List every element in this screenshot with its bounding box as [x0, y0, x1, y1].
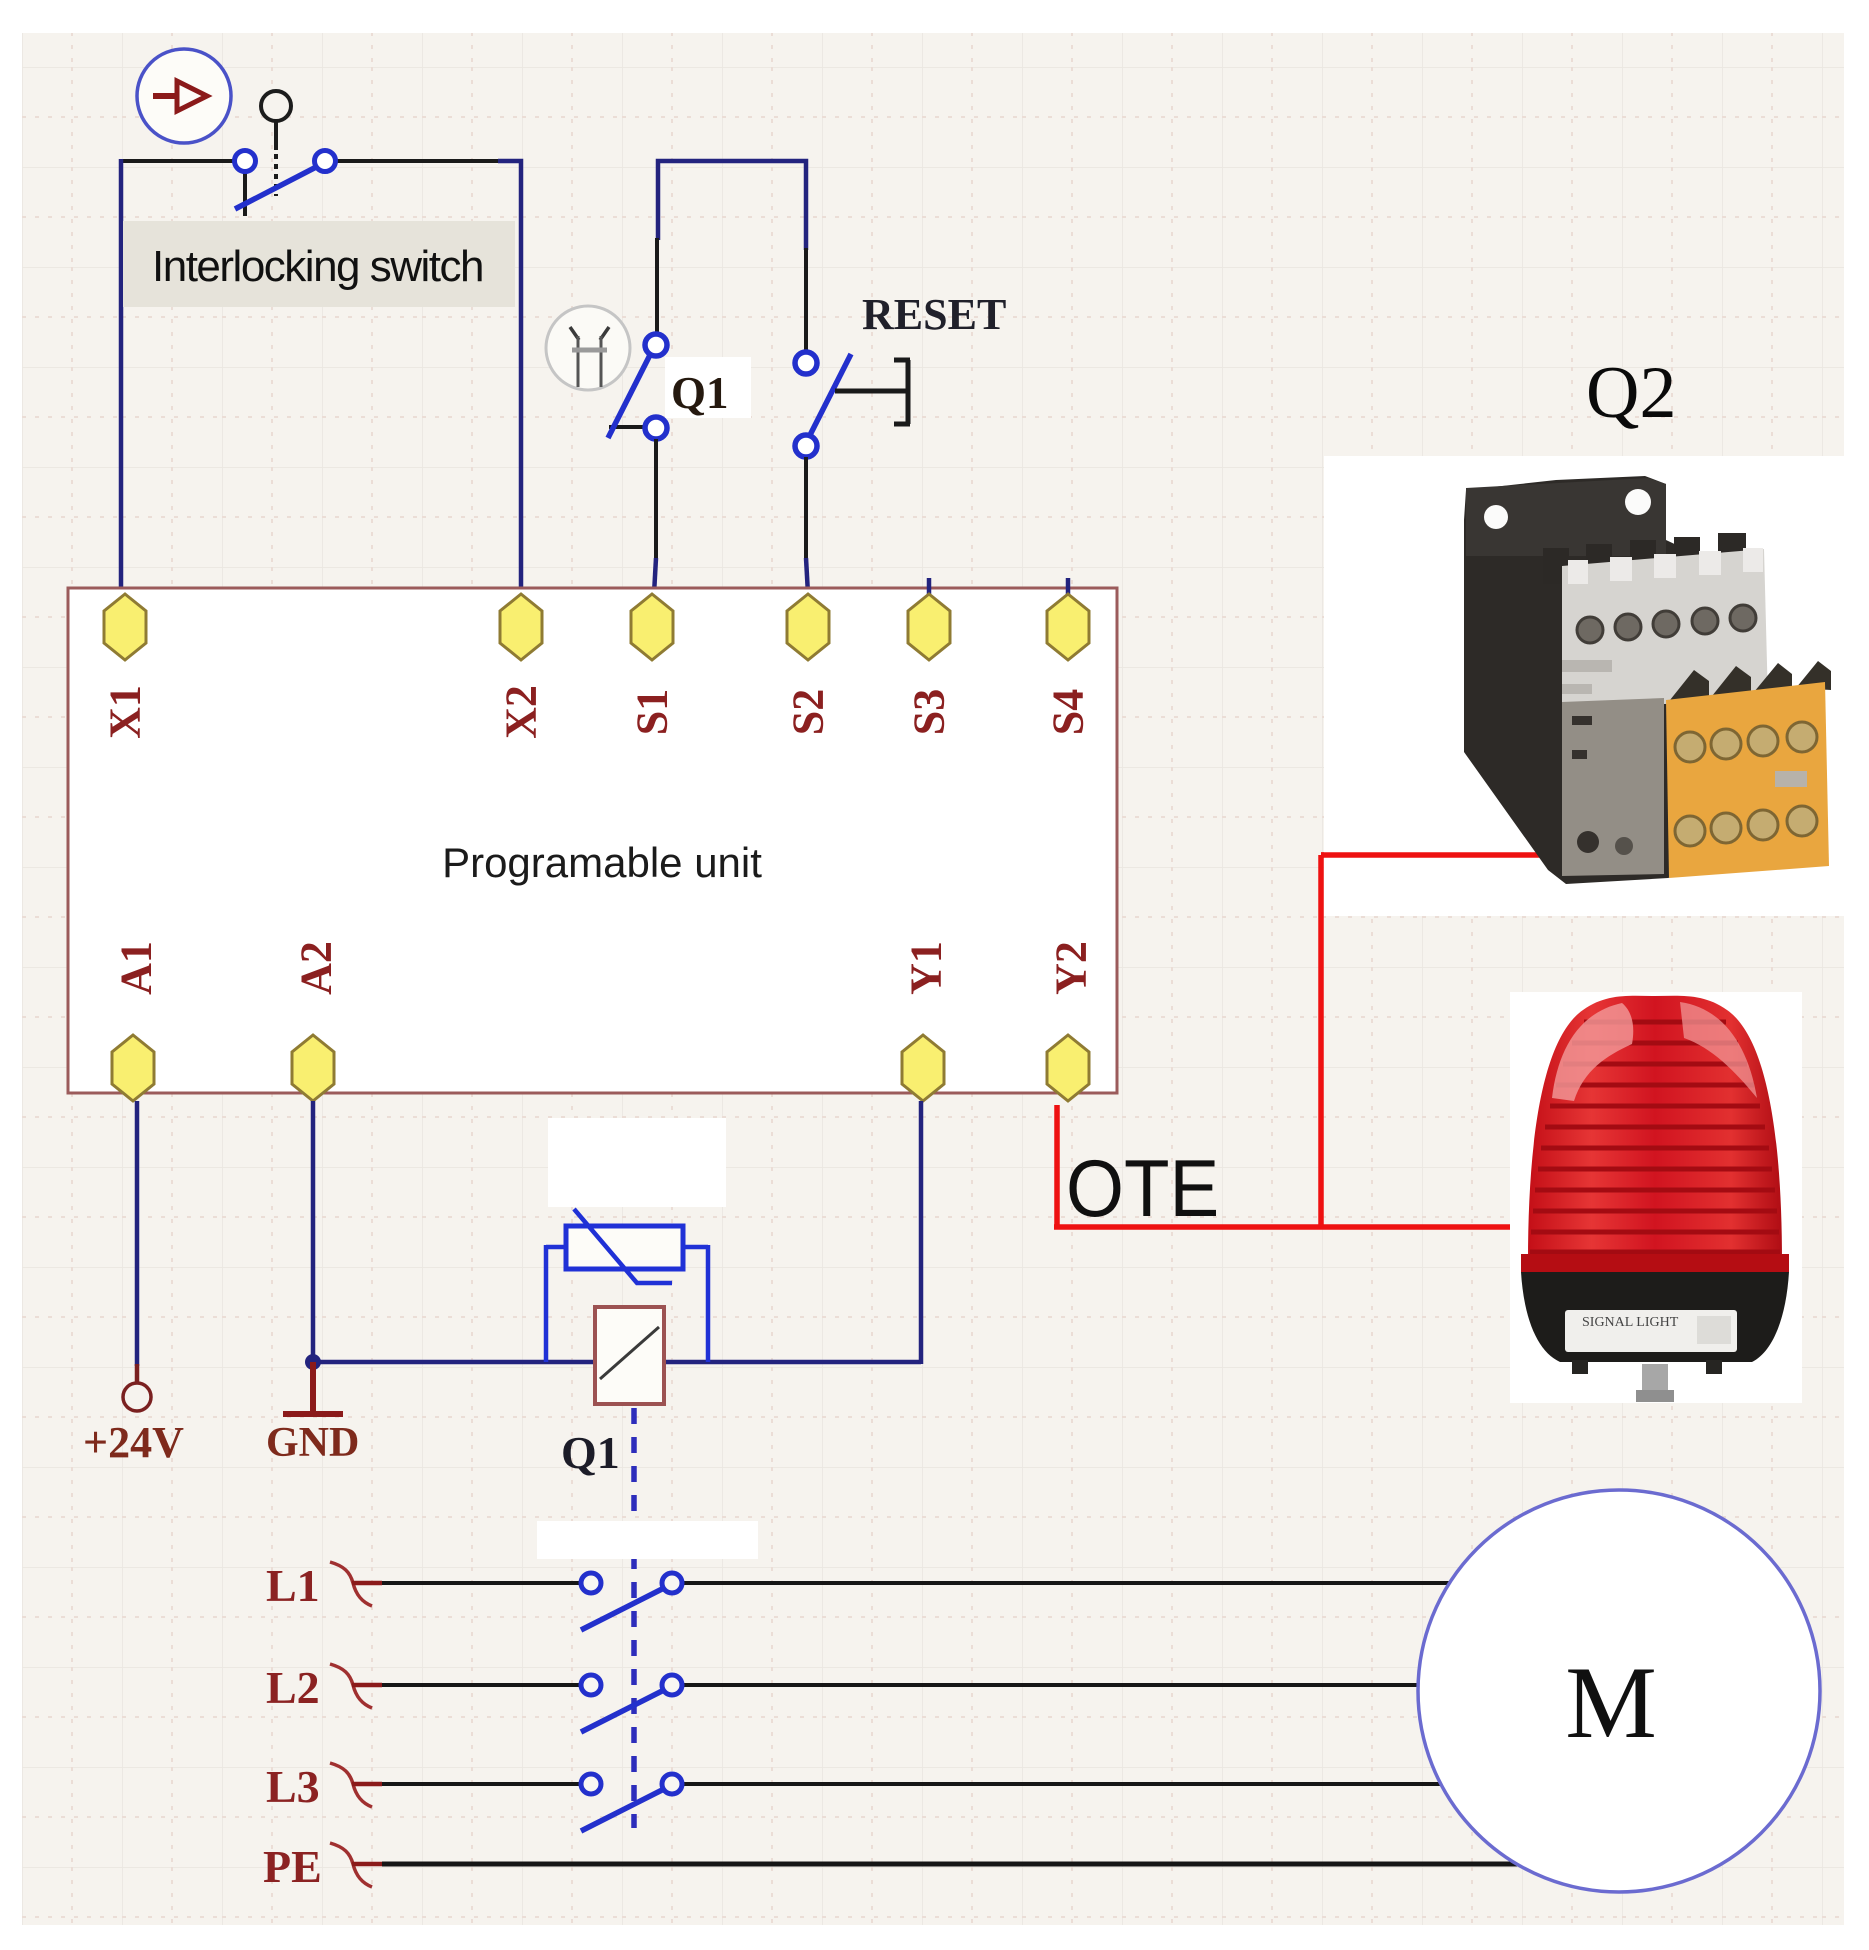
relay Q1 coil	[595, 1307, 664, 1404]
PE entry hook	[330, 1843, 372, 1887]
svg-text:X1: X1	[101, 685, 150, 739]
wire interlock right horizontal	[336, 159, 500, 163]
L3 entry hook	[330, 1763, 372, 1807]
clamp gaps light	[1568, 548, 1763, 584]
Q1 contact top	[645, 334, 667, 356]
mounting hole left	[1484, 505, 1508, 529]
wire red to contactor	[1321, 852, 1545, 858]
pin S4	[1047, 594, 1089, 660]
interlock switch stem	[243, 168, 247, 216]
gray lower column	[1562, 698, 1664, 876]
BOX	[68, 578, 1117, 1101]
Q1 pole contact left L3	[581, 1774, 601, 1794]
svg-text:Interlocking switch: Interlocking switch	[152, 242, 483, 291]
wire L1 left	[382, 1581, 581, 1585]
Q1 pole contact right L1	[662, 1573, 682, 1593]
svg-text:Q2: Q2	[1586, 352, 1676, 434]
varistor bracket right	[683, 1245, 708, 1362]
pin S2	[787, 594, 829, 660]
dome rim	[1521, 1254, 1789, 1272]
pin A2	[292, 1035, 334, 1101]
motor M	[1418, 1490, 1820, 1892]
wire S2 lower	[804, 457, 808, 560]
svg-text:OTE: OTE	[1066, 1144, 1219, 1234]
svg-text:L1: L1	[266, 1560, 320, 1611]
pin A1	[112, 1035, 154, 1101]
Q1 contact stem	[609, 425, 650, 429]
svg-text:X2: X2	[497, 685, 546, 739]
L1 red stub	[352, 1581, 382, 1586]
dashed link	[631, 1408, 637, 1828]
wire L2 right	[682, 1683, 1420, 1687]
wire OTE horizontal red	[1054, 1224, 1512, 1230]
Q1 lamp icon	[546, 306, 630, 390]
svg-text:Programable unit: Programable unit	[442, 839, 762, 886]
svg-text:Y2: Y2	[1047, 941, 1096, 995]
white patch above varistor	[548, 1118, 726, 1207]
orange block	[1666, 682, 1829, 878]
wire Y1 down	[919, 1101, 924, 1364]
stub S4	[1066, 578, 1071, 594]
wire S2 upper black	[804, 248, 808, 353]
lower contact marks	[1572, 716, 1592, 759]
L3 red stub	[352, 1782, 382, 1787]
Q1 pole blade L1	[581, 1587, 666, 1630]
GND symbol	[283, 1362, 343, 1414]
wire red to contactor over white	[1321, 852, 1544, 858]
pin X1	[104, 594, 146, 660]
Q1 pole contact left L2	[581, 1675, 601, 1695]
svg-text:+24V: +24V	[83, 1418, 184, 1467]
wire X1 vertical	[119, 159, 124, 594]
contactor body dark	[1464, 476, 1700, 884]
contactor top plate	[1466, 478, 1666, 556]
svg-text:A2: A2	[292, 941, 341, 995]
svg-text:Q1: Q1	[671, 368, 729, 418]
PHOTOS	[1321, 352, 1869, 1403]
main horizontal wire	[313, 1360, 921, 1365]
gray terminal face	[1562, 549, 1768, 706]
wire A1 down	[135, 1101, 140, 1366]
orange block clamps	[1670, 661, 1831, 702]
dome highlight left	[1552, 1003, 1633, 1101]
interlock contact left	[235, 151, 256, 172]
contactor Q2 photo	[1321, 456, 1869, 916]
black base	[1521, 1272, 1789, 1362]
Q1 label	[665, 357, 751, 418]
svg-text:RESET: RESET	[862, 290, 1006, 339]
svg-text:PE: PE	[263, 1841, 322, 1892]
switch handle	[261, 91, 291, 196]
wire L3 left	[382, 1782, 581, 1786]
mid detail band	[1562, 660, 1612, 694]
svg-text:L2: L2	[266, 1662, 320, 1713]
wire L1 right	[682, 1581, 1452, 1585]
svg-text:L3: L3	[266, 1761, 320, 1812]
mount screw	[1642, 1364, 1668, 1392]
Q1 pole contact left L1	[581, 1573, 601, 1593]
varistor diagonal	[574, 1209, 672, 1283]
base feet	[1572, 1360, 1588, 1374]
RESET contact bottom	[795, 435, 817, 457]
Q1 pole blade L3	[581, 1788, 666, 1831]
wire PE	[382, 1862, 1520, 1867]
orange screws	[1675, 722, 1817, 846]
WIRES-TOP	[119, 49, 1006, 594]
programmable unit box	[68, 588, 1117, 1093]
svg-text:M: M	[1565, 1646, 1657, 1760]
wire S1 upper black	[655, 238, 659, 335]
interlock contact right	[315, 151, 336, 172]
dome ridges	[1530, 1022, 1780, 1252]
PE red stub	[352, 1862, 382, 1867]
varistor body	[566, 1226, 683, 1269]
dome	[1528, 996, 1782, 1262]
L1 entry hook	[330, 1562, 372, 1606]
svg-text:S2: S2	[784, 689, 833, 735]
svg-text:GND: GND	[266, 1420, 359, 1466]
wire L3 right	[682, 1782, 1444, 1786]
wire X2 corner	[498, 161, 521, 594]
RESET contact top	[795, 352, 817, 374]
svg-text:S1: S1	[628, 689, 677, 735]
svg-text:S3: S3	[905, 689, 954, 735]
Q1 pole blade L2	[581, 1689, 666, 1732]
Q1 contact blade	[608, 351, 652, 438]
RESET blade	[807, 354, 851, 441]
RESET actuator	[835, 360, 910, 424]
L2 red stub	[352, 1683, 382, 1688]
pin S1	[631, 594, 673, 660]
POWER	[1054, 855, 1545, 1234]
wire S1 lower	[654, 439, 658, 560]
svg-text:A1: A1	[112, 941, 161, 995]
pin S3	[908, 594, 950, 660]
wire A1 red tail	[135, 1364, 140, 1382]
pin Y1	[902, 1035, 944, 1101]
Q1 pole contact right L2	[662, 1675, 682, 1695]
wire red riser to Q2	[1318, 855, 1324, 1227]
S1 S2 loop wire	[658, 161, 806, 250]
mounting hole right	[1625, 489, 1651, 515]
dome highlight right	[1680, 1002, 1757, 1098]
screws row	[1577, 605, 1756, 643]
svg-text:S4: S4	[1044, 689, 1093, 735]
signal light photo	[1510, 992, 1802, 1403]
top clamp row	[1543, 533, 1746, 584]
pin X2	[500, 594, 542, 660]
stub S3	[927, 578, 932, 594]
svg-text:Y1: Y1	[902, 941, 951, 995]
interlock switch blade	[235, 164, 322, 209]
Q1 pole contact right L3	[662, 1774, 682, 1794]
Q1 contact bottom	[645, 417, 667, 439]
wire L2 left	[382, 1683, 581, 1687]
wire Y2 red down	[1054, 1105, 1060, 1227]
white patch above L1	[537, 1521, 758, 1559]
svg-text:Q1: Q1	[561, 1427, 620, 1478]
orange label window	[1775, 771, 1807, 787]
wire A2 down	[311, 1101, 316, 1362]
L2 entry hook	[330, 1664, 372, 1708]
pin Y2	[1047, 1035, 1089, 1101]
varistor bracket left	[546, 1245, 566, 1362]
BOTTOM	[83, 1101, 1820, 1892]
+24V terminal	[123, 1383, 151, 1411]
interlocking switch label box	[123, 221, 515, 307]
wire interlock left horizontal	[119, 159, 234, 163]
sensor icon circle	[137, 49, 231, 143]
svg-text:SIGNAL LIGHT: SIGNAL LIGHT	[1582, 1315, 1679, 1330]
base label	[1565, 1310, 1737, 1352]
junction GND	[305, 1354, 321, 1370]
